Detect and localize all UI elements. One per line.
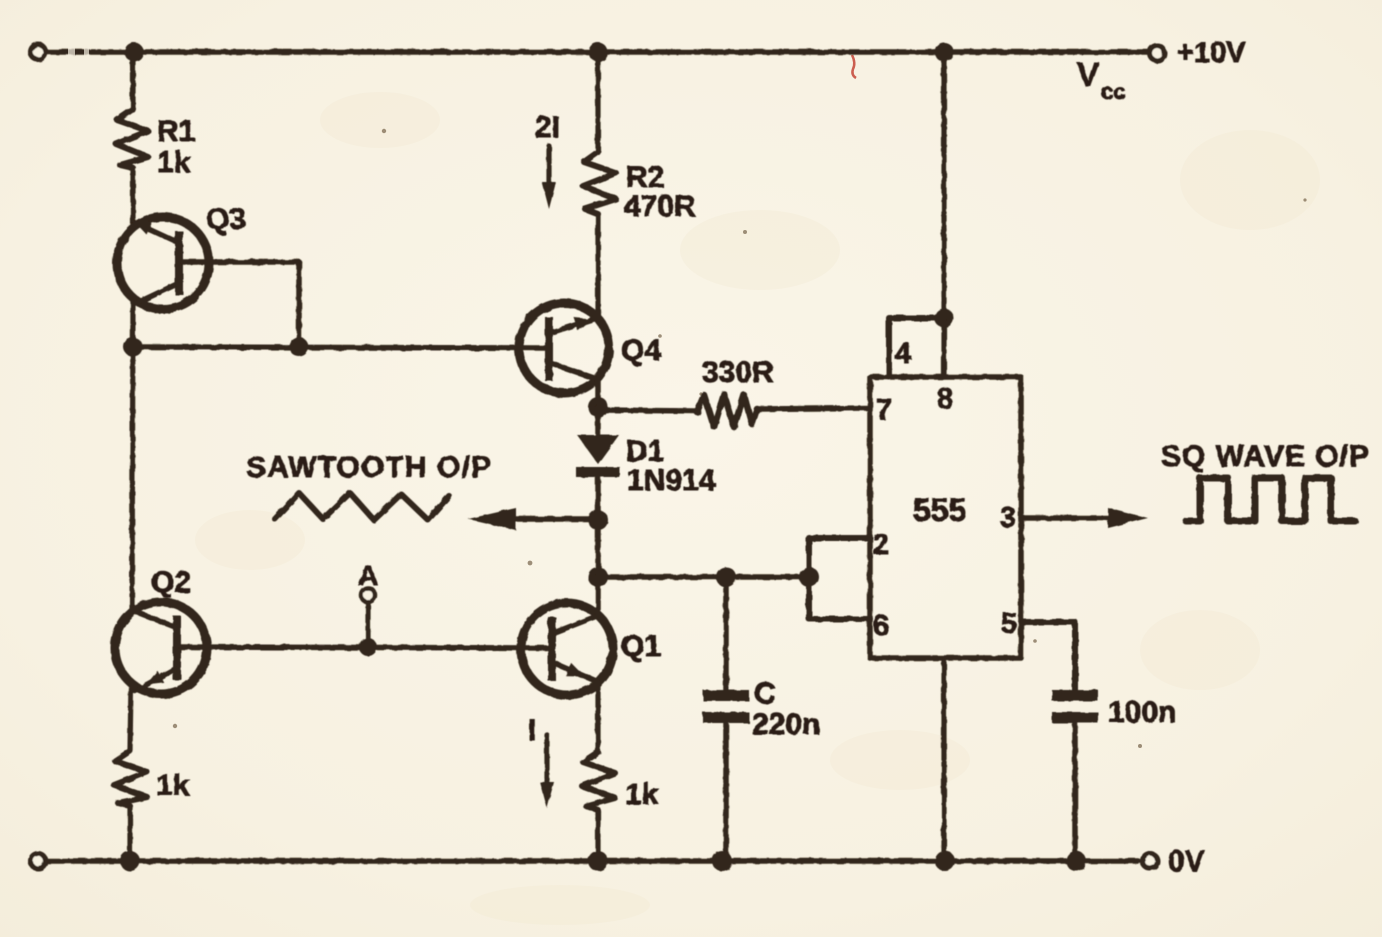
transistor Q3: [117, 217, 299, 309]
wire Q3 base drop to node: [296, 262, 302, 347]
wire row to pin 2/6: [598, 574, 809, 580]
wire 330R to pin 7: [757, 408, 870, 409]
svg-text:1k: 1k: [157, 146, 191, 179]
wire supply drop to 555: [941, 52, 946, 318]
wire pin 3 output with arrow: [1021, 508, 1148, 528]
svg-text:6: 6: [873, 610, 889, 642]
terminal +10V open circle: [31, 45, 46, 60]
resistor R2 470R zigzag: [583, 152, 616, 214]
node dot top rail at R2: [589, 43, 608, 62]
svg-text:Q3: Q3: [206, 203, 246, 236]
svg-text:Q1: Q1: [621, 630, 661, 663]
wire Q2 base to Q1 base: [181, 647, 549, 648]
node dot 0V at Q1 resistor: [588, 851, 608, 871]
svg-text:Q2: Q2: [151, 566, 191, 599]
svg-text:555: 555: [913, 492, 966, 528]
terminal 0V left open circle: [31, 854, 46, 869]
wire Q1 collector up: [595, 577, 601, 616]
square wave symbol: [1186, 478, 1355, 521]
svg-text:4: 4: [895, 338, 911, 370]
arrow 2I current: [542, 146, 556, 209]
node A: [359, 588, 377, 656]
svg-text:SQ WAVE O/P: SQ WAVE O/P: [1161, 440, 1369, 473]
svg-text:+10V: +10V: [1177, 37, 1246, 69]
node dot 0V at 100n: [1066, 851, 1086, 871]
wire pin 5: [1021, 622, 1075, 690]
transistor Q4: [519, 303, 609, 393]
node dot left rail row: [124, 338, 143, 357]
wire pin 6 bracket: [809, 577, 870, 619]
resistor 330R zigzag: [697, 394, 757, 427]
svg-text:I: I: [528, 714, 536, 747]
node dot top rail at 555 supply: [935, 43, 954, 62]
node dot 0V at Q2 resistor: [120, 851, 140, 871]
wire pin 4 bracket: [889, 318, 944, 377]
diode D1 1N914: [576, 407, 620, 577]
sawtooth waveform symbol: [275, 493, 449, 520]
wire pin 8: [941, 318, 946, 377]
svg-text:1k: 1k: [156, 769, 190, 802]
svg-text:1N914: 1N914: [627, 464, 716, 497]
wire node to 330R: [598, 410, 697, 411]
svg-text:1k: 1k: [625, 778, 659, 811]
svg-text:7: 7: [876, 394, 892, 426]
svg-text:V: V: [1077, 56, 1099, 93]
svg-text:R1: R1: [157, 115, 195, 148]
node dot at bracket: [799, 567, 819, 587]
wire top +10V rail: [46, 49, 1147, 55]
node dot 0V at C: [712, 851, 732, 871]
node dot sawtooth tap: [588, 510, 608, 530]
resistor R1 1k zigzag: [116, 109, 148, 168]
wire row to Q4 base: [133, 347, 545, 348]
terminal 0V right open circle: [1143, 854, 1158, 869]
node dot pin4/8: [935, 309, 954, 328]
wire mid rail top segment: [595, 52, 600, 152]
capacitor 100n: [1052, 690, 1098, 861]
wire sawtooth output with arrow: [468, 508, 598, 530]
wire R1 to Q3: [130, 168, 135, 228]
svg-text:cc: cc: [1101, 79, 1125, 104]
node dot Q1 collector row: [588, 567, 608, 587]
capacitor C 220n: [703, 577, 749, 861]
wire left rail top segment: [130, 52, 135, 110]
node dot Q4 collector: [588, 397, 608, 417]
wire pin 2 bracket: [809, 538, 870, 577]
transistor Q2: [115, 602, 207, 694]
svg-text:470R: 470R: [624, 190, 696, 223]
IC U1 555 box: [870, 377, 1021, 658]
svg-text:2: 2: [873, 529, 889, 561]
scan fade on top rail: [68, 47, 89, 56]
svg-text:A: A: [358, 560, 378, 591]
wire 555 ground pin 1: [941, 658, 946, 861]
svg-text:8: 8: [937, 383, 953, 415]
wire Q4 collector down: [595, 378, 601, 407]
node dot top rail at R1: [125, 43, 144, 62]
wire Q2 emitter down: [130, 684, 131, 751]
node dot at C: [716, 567, 736, 587]
svg-text:3: 3: [1000, 502, 1016, 534]
resistor 1k right zigzag: [582, 752, 615, 810]
terminal right +10V open circle: [1150, 46, 1165, 61]
svg-text:330R: 330R: [702, 356, 774, 389]
node dot Q3 base junction: [290, 338, 309, 357]
svg-text:100n: 100n: [1108, 696, 1176, 729]
node dot 0V at 555: [935, 851, 955, 871]
wire Q1 emitter down: [595, 683, 600, 752]
svg-text:C: C: [754, 677, 776, 710]
resistor 1k left zigzag: [114, 751, 147, 806]
transistor Q1: [521, 603, 613, 695]
svg-text:220n: 220n: [752, 708, 820, 741]
wire left rail middle segment: [132, 298, 133, 613]
svg-text:SAWTOOTH O/P: SAWTOOTH O/P: [246, 451, 491, 484]
svg-text:2I: 2I: [535, 111, 560, 144]
wire R2 to Q4: [595, 214, 600, 319]
wire 1k to 0V left: [127, 806, 132, 861]
wire bottom 0V rail: [46, 858, 1138, 864]
svg-text:5: 5: [1001, 608, 1017, 640]
svg-text:0V: 0V: [1168, 845, 1205, 878]
red pen mark: [852, 55, 856, 78]
arrow I current: [540, 735, 554, 808]
wire 1k to 0V: [595, 810, 600, 861]
svg-text:Q4: Q4: [621, 334, 661, 367]
